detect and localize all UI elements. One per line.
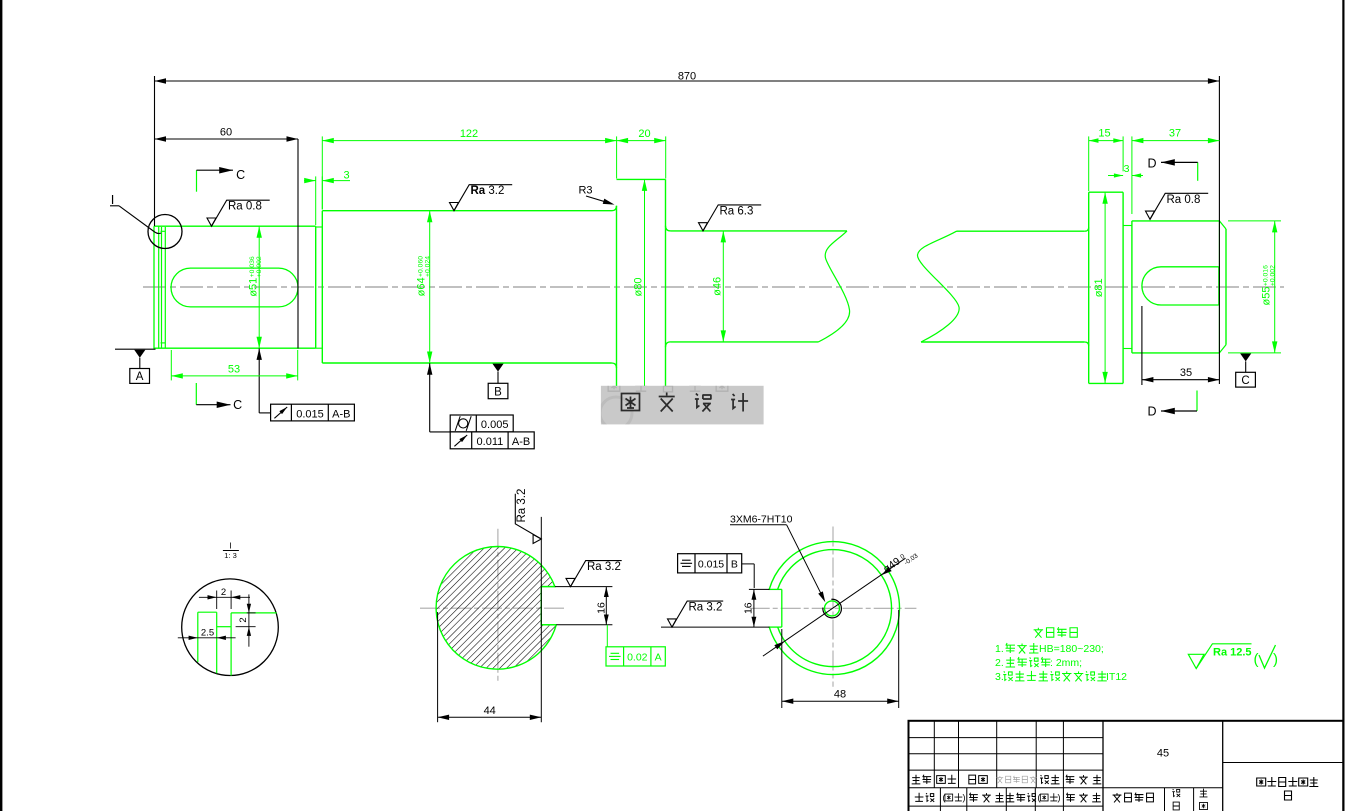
svg-text:+0.036: +0.036 [249, 256, 256, 277]
title block gray label update file number [997, 776, 1037, 783]
section D-D centerlines [750, 607, 917, 609]
section D-D symmetry tolerance 0.015 B (black) [678, 554, 742, 573]
surface finish Ra 6.3 (phi46) [699, 205, 762, 231]
section D-D diagonal dimension phi49 [763, 558, 906, 656]
svg-text:3XM6-7HT10: 3XM6-7HT10 [730, 514, 793, 526]
tolerance frame 0.015 A-B with leader [257, 348, 262, 360]
dimension 35 keyway (right) [1141, 306, 1143, 385]
svg-text:15: 15 [1098, 128, 1110, 140]
tolerance frame 0.005 cylindricity with leader [427, 363, 432, 375]
svg-text:45: 45 [1157, 748, 1169, 760]
datum C symbol [1240, 353, 1251, 361]
dimension 60 [297, 139, 299, 349]
relief groove between phi51 and phi64 [316, 226, 323, 228]
view arrow C bottom [195, 383, 197, 405]
svg-text:Ra 3.2: Ra 3.2 [471, 185, 505, 197]
dimension 20 [665, 136, 667, 178]
tolerance frame 0.011 A-B circular runout [450, 432, 534, 449]
dimension 870 overall [154, 76, 156, 226]
shaft centerline (main view) [143, 286, 1284, 288]
section C-C extension line long vertical [540, 517, 542, 722]
title block outer frame [909, 721, 1344, 811]
svg-text:C: C [233, 398, 242, 412]
section D-D surface finish Ra 3.2 [668, 601, 724, 627]
dimension 15 (phi81 collar) [1088, 136, 1090, 191]
dimension 3 relief groove left [315, 176, 317, 225]
section C-C surface finish Ra 3.2 right [555, 586, 613, 588]
view arrow D bottom [1196, 391, 1198, 412]
title block grid lines [909, 737, 1104, 739]
svg-text:0.011: 0.011 [477, 436, 504, 448]
svg-text:0.02: 0.02 [627, 651, 648, 663]
dimension phi46 [722, 231, 724, 342]
svg-text:A: A [655, 651, 662, 663]
svg-text:1.: 1. [995, 643, 1004, 655]
phi81 collar outline [1088, 192, 1090, 383]
svg-text:16: 16 [596, 602, 608, 614]
view arrow C top [196, 170, 198, 192]
svg-text:C: C [236, 168, 245, 182]
break line right (S-curve) [917, 231, 959, 342]
svg-text:+0.060: +0.060 [417, 256, 424, 277]
detail I circle marker [148, 215, 182, 249]
svg-text:): ) [963, 793, 966, 803]
dimension 37 (phi55 length) [1131, 136, 1133, 214]
svg-text:ø64: ø64 [416, 277, 428, 296]
section D-D dimension 48 [781, 629, 783, 708]
relief groove between phi81 and phi55 [1123, 225, 1132, 227]
svg-text:D: D [1147, 157, 1156, 171]
phi46 section left part with fillets [666, 226, 671, 231]
surface finish Ra 0.8 (phi55) [1146, 193, 1209, 219]
svg-text:B: B [494, 386, 502, 398]
svg-text:3: 3 [1124, 163, 1130, 175]
svg-text:Ra 3.2: Ra 3.2 [587, 561, 621, 573]
svg-text:D: D [1147, 405, 1156, 419]
svg-text:48: 48 [834, 689, 846, 701]
svg-text:A: A [136, 371, 144, 383]
phi64 section outline [321, 211, 323, 363]
svg-text:Ra 3.2: Ra 3.2 [516, 489, 528, 523]
surface finish Ra 0.8 (phi51) [207, 200, 270, 226]
shaft left end face and collar lines [153, 226, 155, 349]
svg-text:16: 16 [743, 602, 755, 614]
svg-text:R3: R3 [578, 185, 592, 197]
sheet frame left border [0, 0, 2, 811]
svg-text:60: 60 [220, 126, 232, 138]
dimension phi81 [1104, 192, 1106, 383]
svg-text:37: 37 [1169, 128, 1181, 140]
dimension 53 keyway length [170, 350, 172, 380]
svg-text:ø51: ø51 [247, 278, 259, 297]
title block part name zhu dong lian lun chuan dong zhou [1257, 777, 1319, 787]
section C-C dimension 44 [437, 612, 439, 722]
svg-text:ø46: ø46 [712, 277, 724, 296]
sheet frame right border / title block right edge [1342, 0, 1344, 811]
svg-text:2: 2 [238, 617, 249, 622]
section C-C hatched shaft section with keyway flat [436, 547, 556, 670]
dimension 3 relief groove right [1108, 175, 1123, 177]
svg-text:2.: 2. [995, 657, 1004, 669]
svg-text:2: 2 [221, 587, 226, 598]
section C-C centerlines [420, 607, 566, 609]
svg-text:IT12: IT12 [1106, 671, 1127, 683]
title block row labels biaoji chushu fenqu [912, 775, 931, 784]
title block qianming and date header [1040, 775, 1059, 784]
svg-text:A-B: A-B [512, 436, 530, 448]
svg-text:122: 122 [460, 128, 478, 140]
title block stage mark weight scale labels [1113, 793, 1154, 803]
watermark text tu wen she ji [622, 393, 749, 412]
section D-D threaded hole M6 [823, 599, 842, 618]
svg-text:1: 3: 1: 3 [224, 551, 237, 560]
surface finish Ra 3.2 (phi64) [450, 185, 513, 211]
svg-text:Ra 3.2: Ra 3.2 [689, 602, 723, 614]
phi46 section right part with fillets [957, 230, 1085, 232]
svg-text:+0.016: +0.016 [1262, 265, 1269, 286]
datum B symbol [492, 364, 503, 372]
svg-text:+0.002: +0.002 [256, 256, 263, 277]
svg-text:Ra 0.8: Ra 0.8 [228, 201, 262, 213]
svg-text:35: 35 [1180, 367, 1192, 379]
section C-C rotated surface finish Ra 3.2 [515, 494, 541, 544]
dimension 122 [321, 136, 323, 209]
svg-text:A-B: A-B [332, 408, 350, 420]
svg-text:HB=180~230;: HB=180~230; [1039, 643, 1104, 655]
title block row sheji signature date [915, 793, 934, 802]
detail I dimension 2 groove width [216, 591, 218, 610]
svg-text:2.5: 2.5 [201, 627, 214, 638]
phi80 collar outline [616, 206, 618, 395]
svg-text:3.: 3. [995, 671, 1004, 683]
svg-text:Ra 12.5: Ra 12.5 [1213, 647, 1252, 659]
svg-text:C: C [1241, 375, 1249, 387]
svg-text:(: ( [1254, 651, 1259, 668]
keyway slot on phi55 section [1142, 267, 1219, 305]
R3 fillets at phi64-phi80 shoulder [612, 206, 617, 211]
svg-text:Ra 0.8: Ra 0.8 [1167, 194, 1201, 206]
svg-text:44: 44 [484, 705, 496, 717]
dimension phi51 with tolerance [258, 226, 260, 348]
svg-text:ø55: ø55 [1261, 287, 1273, 306]
svg-text:B: B [731, 558, 738, 570]
detail I dimension 2.5 [178, 637, 236, 639]
section C-C dimension 16 keyway width [605, 587, 607, 625]
phi55 end section outline with chamfer [1131, 221, 1133, 353]
detail I shaft end geometry [197, 612, 199, 662]
technical requirements heading [1034, 627, 1078, 638]
section D-D outer circle phi55 with keyway gap [769, 542, 899, 675]
svg-text:0.015: 0.015 [296, 408, 324, 420]
overall surface finish Ra 12.5 with basic symbol in parens [1188, 644, 1251, 669]
break line left (S-curve) [819, 231, 850, 342]
section C-C keyway slot lines [541, 586, 555, 588]
svg-text:870: 870 [678, 70, 696, 82]
svg-text:0.015: 0.015 [698, 558, 724, 570]
svg-text:): ) [1273, 651, 1278, 668]
detail I dimension 2 groove depth [236, 626, 256, 628]
section C-C symmetry tolerance 0.02 A (green) [606, 625, 608, 647]
section D-D inner circle phi49 with keyway gap [778, 550, 892, 667]
svg-text:3: 3 [343, 170, 349, 182]
view arrow D top [1197, 162, 1199, 180]
dimension phi80 [644, 179, 646, 394]
dimension phi55 with tolerance and extension lines [1228, 220, 1281, 222]
detail I view circle [182, 579, 279, 676]
dimension phi64 with tolerance [429, 211, 431, 363]
svg-text:ø81: ø81 [1093, 278, 1105, 297]
svg-text:ø80: ø80 [633, 278, 645, 297]
watermark gray box [601, 386, 764, 425]
svg-text:20: 20 [638, 128, 650, 140]
section D-D dimension 16 keyway width [749, 588, 770, 590]
svg-text:0.005: 0.005 [481, 419, 509, 431]
phi51 section outline [154, 225, 316, 227]
svg-text:+0.024: +0.024 [424, 256, 431, 277]
svg-text:53: 53 [228, 363, 240, 375]
svg-text:I: I [111, 192, 115, 207]
svg-text:: 2mm;: : 2mm; [1050, 657, 1082, 669]
svg-text:Ra 6.3: Ra 6.3 [720, 205, 754, 217]
keyway slot on phi51 section [171, 268, 298, 307]
svg-text:+0.002: +0.002 [1269, 265, 1276, 286]
section D-D keyway notch [769, 588, 782, 590]
svg-text:): ) [1058, 793, 1061, 803]
svg-text:I: I [229, 541, 231, 551]
datum A symbol [115, 348, 156, 350]
